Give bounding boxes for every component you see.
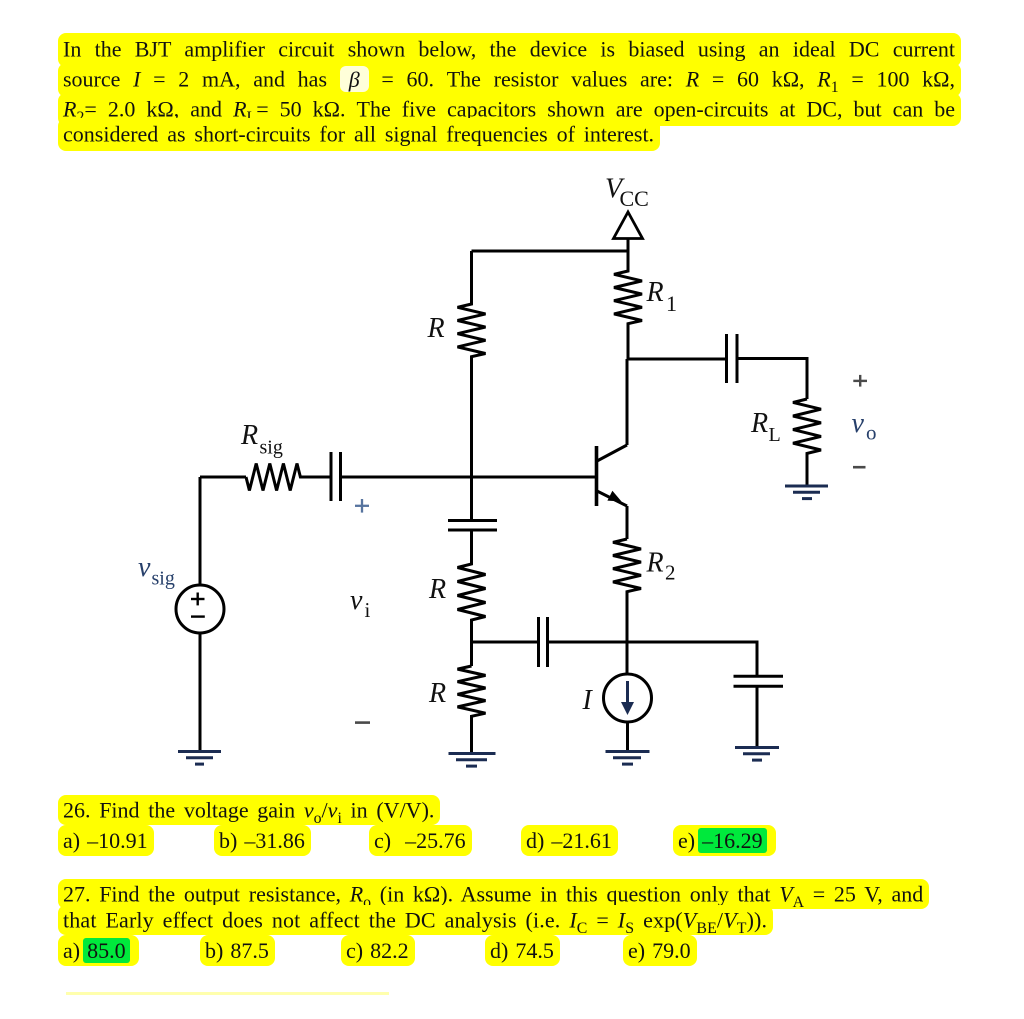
svg-text:R: R [428,574,446,605]
label VCC [605,174,649,212]
label R (middle) [428,574,446,605]
label vsig [138,552,175,590]
wire current source to ground [626,722,629,750]
resistor RL [793,399,821,485]
svg-text:R: R [750,408,768,439]
faint highlight edge bottom [66,992,389,995]
resistor Rsig [246,464,330,491]
ground (current source) [606,752,650,765]
wire vsig top [199,477,202,585]
svg-text:sig: sig [152,568,175,590]
svg-text:1: 1 [666,291,677,316]
question 27 options [62,934,64,936]
label plus input [355,499,369,513]
svg-text:CC: CC [620,186,649,211]
capacitor C2 (middle) [448,521,497,531]
svg-text:L: L [769,424,781,446]
wire base input [200,476,246,479]
wire bypass node [472,641,538,644]
svg-text:v: v [138,552,151,583]
wire VCC top rail [472,250,629,253]
ground (C4) [735,748,779,761]
label minus input [355,721,370,724]
svg-text:o: o [866,421,877,445]
label RL [750,408,781,446]
wire bypass to C4 [549,642,758,675]
label vi [350,585,371,622]
top problem statement paragraph [63,37,955,147]
label vo [852,408,877,445]
wire collector node to output cap [628,358,726,361]
label vsig minus sign inside source [191,615,205,617]
label R1 [646,277,678,316]
svg-text:i: i [365,598,371,622]
label plus output [853,375,867,387]
wire vsig bottom [199,633,202,750]
label I [582,685,594,716]
capacitor C-out [727,334,738,383]
wire collector [626,359,629,445]
svg-text:v: v [350,585,363,616]
label R (bottom) [428,678,446,709]
wire emitter [626,506,629,539]
question 26 [63,797,434,823]
svg-text:R: R [646,548,664,579]
ground (R chain) [449,754,496,767]
power symbol VCC triangle [614,212,643,251]
resistor R2 [613,539,641,674]
current source I circle [604,674,652,722]
ground (vsig) [178,752,221,765]
svg-text:R: R [427,313,445,344]
resistor R (bottom) [458,666,486,752]
question 27 [63,881,983,934]
label minus output [853,466,866,469]
svg-text:R: R [240,420,258,451]
current source arrow [621,681,634,715]
wire C4 to ground [756,688,759,747]
label vsig plus sign inside source [191,593,205,606]
resistor R (middle) [458,530,486,666]
svg-text:v: v [852,408,865,439]
label R2 [646,548,676,585]
label R (top) [427,313,445,344]
wire cap to base [342,476,596,479]
wire cap to RL [738,359,807,400]
label Rsig [240,420,283,459]
question 26 options [62,824,64,826]
svg-text:2: 2 [665,561,676,585]
capacitor C-in [331,452,341,501]
svg-text:R: R [428,678,446,709]
capacitor C4 (right) [734,676,784,686]
resistor R1 [614,240,642,359]
resistor R (top) [458,251,486,520]
capacitor C3 (bypass) [539,617,548,667]
svg-text:R: R [646,277,664,308]
transistor Q1 [597,445,628,506]
svg-text:sig: sig [260,437,283,459]
source vsig circle [176,585,224,633]
svg-text:I: I [582,685,594,716]
ground (RL) [785,486,828,499]
